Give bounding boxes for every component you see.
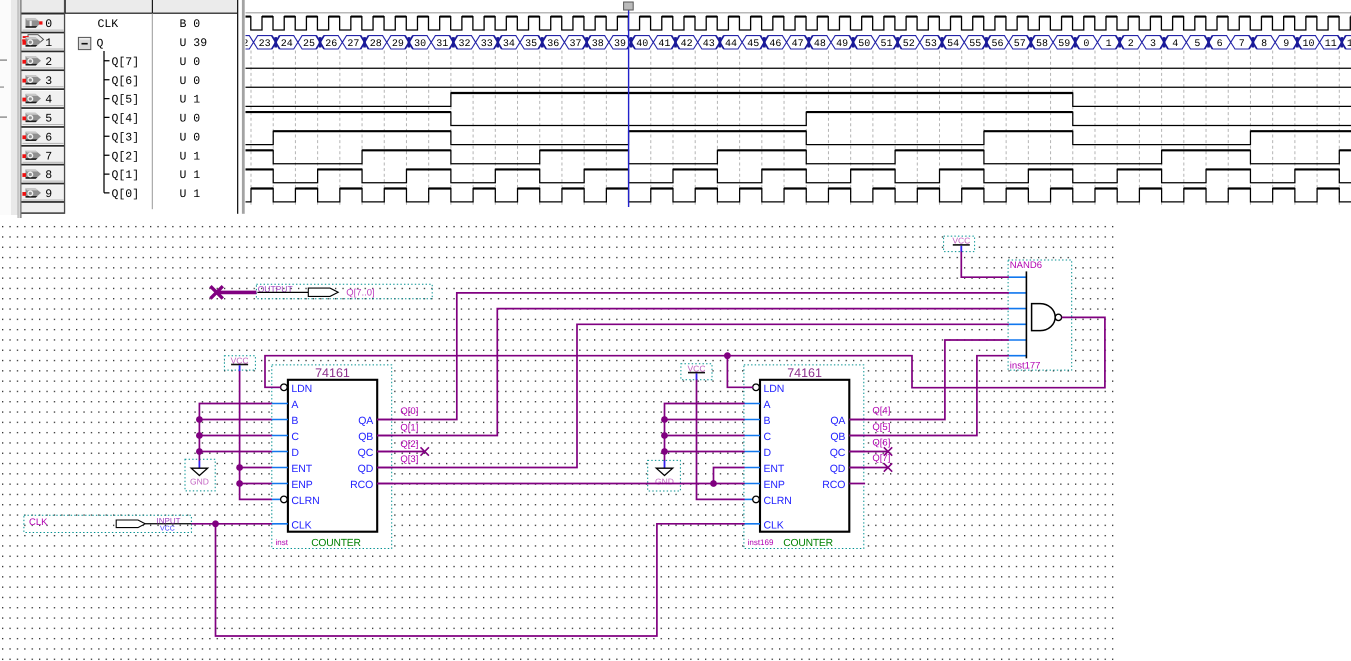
svg-text:C: C bbox=[291, 431, 299, 443]
U1 VCC to ENT/ENP/CLRN bbox=[240, 371, 272, 499]
svg-text:QD: QD bbox=[830, 463, 846, 475]
row 9 icon bbox=[26, 188, 42, 197]
svg-text:3: 3 bbox=[1150, 39, 1156, 50]
U2 QC dangling with X bbox=[849, 451, 888, 453]
row 0 icon bbox=[26, 18, 42, 27]
svg-text:inst: inst bbox=[276, 538, 289, 547]
svg-text:B: B bbox=[291, 415, 298, 427]
svg-text:49: 49 bbox=[836, 39, 848, 50]
svg-text:QC: QC bbox=[358, 447, 374, 459]
Q[4] net: U2 QA to NAND input 5 bbox=[849, 340, 1009, 420]
svg-text:VCC: VCC bbox=[160, 526, 175, 533]
svg-text:Q[0]: Q[0] bbox=[112, 188, 140, 201]
svg-text:QB: QB bbox=[830, 431, 845, 443]
svg-text:Q: Q bbox=[97, 37, 104, 50]
svg-text:36: 36 bbox=[547, 39, 559, 50]
CLK net wires bbox=[191, 523, 271, 525]
waveform panel left margin strip bbox=[0, 0, 11, 215]
grid lines bbox=[251, 51, 1339, 207]
svg-text:46: 46 bbox=[769, 39, 781, 50]
NAND6 gate inst177 bbox=[1008, 260, 1072, 370]
svg-text:D: D bbox=[291, 447, 299, 459]
svg-text:6: 6 bbox=[1217, 39, 1223, 50]
VCC symbol for NAND6 bbox=[944, 236, 975, 252]
svg-text:GND: GND bbox=[190, 477, 209, 487]
svg-text:58: 58 bbox=[1036, 39, 1048, 50]
svg-text:54: 54 bbox=[947, 39, 959, 50]
svg-text:Q[7..0]: Q[7..0] bbox=[346, 287, 375, 298]
U1 load inputs A,B,C,D to GND bbox=[199, 404, 271, 461]
svg-text:5: 5 bbox=[1194, 39, 1200, 50]
svg-text:inst169: inst169 bbox=[748, 538, 774, 547]
svg-text:47: 47 bbox=[792, 39, 804, 50]
svg-text:37: 37 bbox=[569, 39, 581, 50]
svg-text:35: 35 bbox=[525, 39, 537, 50]
svg-text:53: 53 bbox=[925, 39, 937, 50]
svg-text:39: 39 bbox=[614, 39, 626, 50]
row 7 icon bbox=[26, 150, 42, 159]
left margin tick marks bbox=[0, 59, 7, 60]
row 3 icon bbox=[26, 75, 42, 84]
svg-text:Q[0]: Q[0] bbox=[400, 406, 418, 417]
svg-text:0: 0 bbox=[1083, 39, 1089, 50]
svg-text:4: 4 bbox=[1172, 39, 1178, 50]
svg-text:B: B bbox=[764, 415, 771, 427]
svg-text:26: 26 bbox=[325, 39, 337, 50]
svg-text:2: 2 bbox=[45, 56, 52, 69]
svg-text:8: 8 bbox=[45, 169, 52, 182]
74161 counter U1 (inst) bbox=[272, 365, 392, 549]
svg-text:U 0: U 0 bbox=[180, 75, 201, 88]
svg-text:45: 45 bbox=[747, 39, 759, 50]
svg-text:ENT: ENT bbox=[291, 463, 312, 475]
svg-text:CLRN: CLRN bbox=[764, 495, 792, 507]
svg-text:CLK: CLK bbox=[764, 519, 784, 531]
svg-text:28: 28 bbox=[370, 39, 382, 50]
wire CLK net to U2 bbox=[216, 524, 745, 636]
svg-text:50: 50 bbox=[858, 39, 870, 50]
svg-text:31: 31 bbox=[436, 39, 448, 50]
row 5 icon bbox=[26, 113, 42, 122]
VCC to NAND input 1 bbox=[961, 252, 1009, 278]
junctions on U1 ABCD gnd net bbox=[196, 416, 203, 423]
svg-text:QB: QB bbox=[358, 431, 373, 443]
row 6 icon bbox=[26, 132, 42, 141]
RCO net: U1 RCO to U2 ENT/ENP bbox=[377, 483, 744, 485]
svg-text:U 1: U 1 bbox=[180, 150, 201, 163]
dangling bus stub with X bbox=[217, 291, 257, 295]
svg-text:56: 56 bbox=[991, 39, 1003, 50]
svg-text:44: 44 bbox=[725, 39, 737, 50]
cursor bbox=[628, 10, 629, 207]
svg-text:55: 55 bbox=[969, 39, 981, 50]
svg-text:A: A bbox=[291, 399, 298, 411]
svg-text:3: 3 bbox=[45, 75, 52, 88]
Q[0] net: U1 QA to NAND input 2 bbox=[377, 293, 1009, 420]
svg-text:Q[4]: Q[4] bbox=[112, 113, 140, 126]
svg-text:U 1: U 1 bbox=[180, 169, 201, 182]
svg-text:NAND6: NAND6 bbox=[1010, 260, 1042, 271]
row 4 icon bbox=[26, 94, 42, 103]
svg-text:RCO: RCO bbox=[822, 479, 845, 491]
svg-text:Q[1]: Q[1] bbox=[112, 169, 140, 182]
CLK waveform bbox=[246, 17, 1351, 30]
svg-text:U 0: U 0 bbox=[180, 132, 201, 145]
svg-text:27: 27 bbox=[347, 39, 359, 50]
INPUT pin CLK bbox=[24, 515, 192, 532]
svg-text:INPUT: INPUT bbox=[157, 517, 181, 526]
svg-text:ENT: ENT bbox=[764, 463, 785, 475]
row header buttons column bbox=[22, 14, 65, 214]
junction on CLK net bbox=[212, 520, 219, 527]
Q[2] dangling wire on U1 QC bbox=[377, 451, 425, 453]
svg-text:5: 5 bbox=[45, 113, 52, 126]
junctions on U2 ABCD gnd net bbox=[661, 416, 668, 423]
header band of name/value panel bbox=[22, 0, 238, 13]
svg-text:Q[6]: Q[6] bbox=[112, 75, 140, 88]
svg-text:41: 41 bbox=[658, 39, 670, 50]
svg-text:57: 57 bbox=[1014, 39, 1026, 50]
svg-text:38: 38 bbox=[592, 39, 604, 50]
svg-text:9: 9 bbox=[45, 188, 52, 201]
svg-text:COUNTER: COUNTER bbox=[311, 538, 361, 549]
svg-text:GND: GND bbox=[655, 477, 674, 487]
svg-text:Q[2]: Q[2] bbox=[400, 439, 418, 450]
svg-text:32: 32 bbox=[458, 39, 470, 50]
svg-text:C: C bbox=[764, 431, 772, 443]
svg-text:QD: QD bbox=[358, 463, 374, 475]
svg-text:U 0: U 0 bbox=[180, 113, 201, 126]
junction on LDN net bbox=[724, 352, 731, 359]
svg-text:1: 1 bbox=[45, 37, 52, 50]
svg-text:1: 1 bbox=[1106, 39, 1112, 50]
svg-text:59: 59 bbox=[1058, 39, 1070, 50]
svg-text:30: 30 bbox=[414, 39, 426, 50]
Q bit waveforms bbox=[246, 67, 1351, 69]
svg-text:CLK: CLK bbox=[98, 18, 119, 31]
svg-text:CLRN: CLRN bbox=[291, 495, 319, 507]
OUTPUT pin Q[7..0] bbox=[256, 284, 432, 298]
svg-text:ENP: ENP bbox=[764, 479, 785, 491]
VCC symbol for U2 bbox=[681, 364, 712, 380]
svg-text:24: 24 bbox=[281, 39, 293, 50]
svg-text:CLK: CLK bbox=[291, 519, 311, 531]
svg-text:6: 6 bbox=[45, 132, 52, 145]
svg-text:48: 48 bbox=[814, 39, 826, 50]
svg-text:LDN: LDN bbox=[291, 383, 312, 395]
svg-text:4: 4 bbox=[45, 94, 52, 107]
svg-text:29: 29 bbox=[392, 39, 404, 50]
junction on RCO net bbox=[710, 480, 717, 487]
panel/canvas separator bbox=[237, 0, 238, 214]
svg-text:Q[7]: Q[7] bbox=[112, 56, 140, 69]
svg-text:74161: 74161 bbox=[787, 366, 822, 380]
svg-text:U 39: U 39 bbox=[180, 37, 208, 50]
svg-text:52: 52 bbox=[903, 39, 915, 50]
svg-text:12: 12 bbox=[1347, 39, 1351, 50]
canvas header line bbox=[246, 11, 1351, 14]
U2 load inputs A,B,C,D to GND bbox=[665, 404, 745, 461]
svg-text:U 1: U 1 bbox=[180, 94, 201, 107]
svg-text:7: 7 bbox=[45, 150, 52, 163]
junctions on U1 VCC net bbox=[236, 464, 243, 471]
Q[5] net: U2 QB to NAND input 6 bbox=[849, 356, 1009, 436]
svg-text:51: 51 bbox=[880, 39, 892, 50]
svg-text:Q[5]: Q[5] bbox=[112, 94, 140, 107]
svg-text:Q[7]: Q[7] bbox=[872, 453, 890, 464]
svg-text:Q[3]: Q[3] bbox=[112, 132, 140, 145]
svg-text:0: 0 bbox=[45, 18, 52, 31]
svg-text:Q[3]: Q[3] bbox=[400, 454, 418, 465]
svg-text:Q[5]: Q[5] bbox=[872, 422, 890, 433]
svg-text:U 1: U 1 bbox=[180, 188, 201, 201]
svg-text:COUNTER: COUNTER bbox=[783, 538, 833, 549]
svg-text:ENP: ENP bbox=[291, 479, 312, 491]
svg-text:QA: QA bbox=[830, 415, 845, 427]
bus value cells bbox=[231, 36, 1351, 49]
svg-text:34: 34 bbox=[503, 39, 515, 50]
svg-text:23: 23 bbox=[259, 39, 271, 50]
LDN net: NAND output to both counters LDN bbox=[265, 317, 1105, 387]
svg-text:inst177: inst177 bbox=[1010, 360, 1041, 371]
Q[1] net: U1 QB to NAND input 3 bbox=[377, 309, 1009, 436]
svg-text:B 0: B 0 bbox=[180, 18, 201, 31]
U2 QD dangling with X bbox=[849, 467, 888, 469]
svg-text:9: 9 bbox=[1283, 39, 1289, 50]
svg-text:A: A bbox=[764, 399, 771, 411]
svg-text:2: 2 bbox=[1128, 39, 1134, 50]
svg-text:D: D bbox=[764, 447, 772, 459]
svg-text:U 0: U 0 bbox=[180, 56, 201, 69]
svg-text:25: 25 bbox=[303, 39, 315, 50]
svg-text:11: 11 bbox=[1325, 39, 1337, 50]
expand box bbox=[78, 37, 90, 49]
svg-text:QC: QC bbox=[830, 447, 846, 459]
Q[3] net: U1 QD to NAND input 4 bbox=[377, 324, 1009, 467]
svg-text:Q[2]: Q[2] bbox=[112, 150, 140, 163]
GND symbol for U1 bbox=[185, 459, 215, 491]
svg-text:Q[6]: Q[6] bbox=[872, 437, 890, 448]
svg-text:40: 40 bbox=[636, 39, 648, 50]
svg-text:QA: QA bbox=[358, 415, 373, 427]
74161 counter U2 (inst169) bbox=[744, 365, 864, 549]
svg-text:74161: 74161 bbox=[315, 366, 350, 380]
tree lines bbox=[104, 51, 110, 193]
svg-text:10: 10 bbox=[1302, 39, 1314, 50]
svg-text:43: 43 bbox=[703, 39, 715, 50]
svg-text:CLK: CLK bbox=[29, 517, 48, 528]
U2 VCC to CLRN bbox=[697, 380, 745, 500]
row 8 icon bbox=[26, 169, 42, 178]
svg-text:8: 8 bbox=[1261, 39, 1267, 50]
svg-text:33: 33 bbox=[481, 39, 493, 50]
row 2 icon bbox=[26, 56, 42, 65]
svg-text:7: 7 bbox=[1239, 39, 1245, 50]
GND symbol for U2 bbox=[648, 460, 681, 491]
svg-text:42: 42 bbox=[681, 39, 693, 50]
VCC symbol for U1 bbox=[224, 356, 255, 370]
svg-text:Q[4]: Q[4] bbox=[872, 406, 890, 417]
row 1 icon bbox=[28, 35, 44, 44]
svg-text:RCO: RCO bbox=[350, 479, 373, 491]
svg-text:LDN: LDN bbox=[764, 383, 785, 395]
svg-text:Q[1]: Q[1] bbox=[400, 422, 418, 433]
